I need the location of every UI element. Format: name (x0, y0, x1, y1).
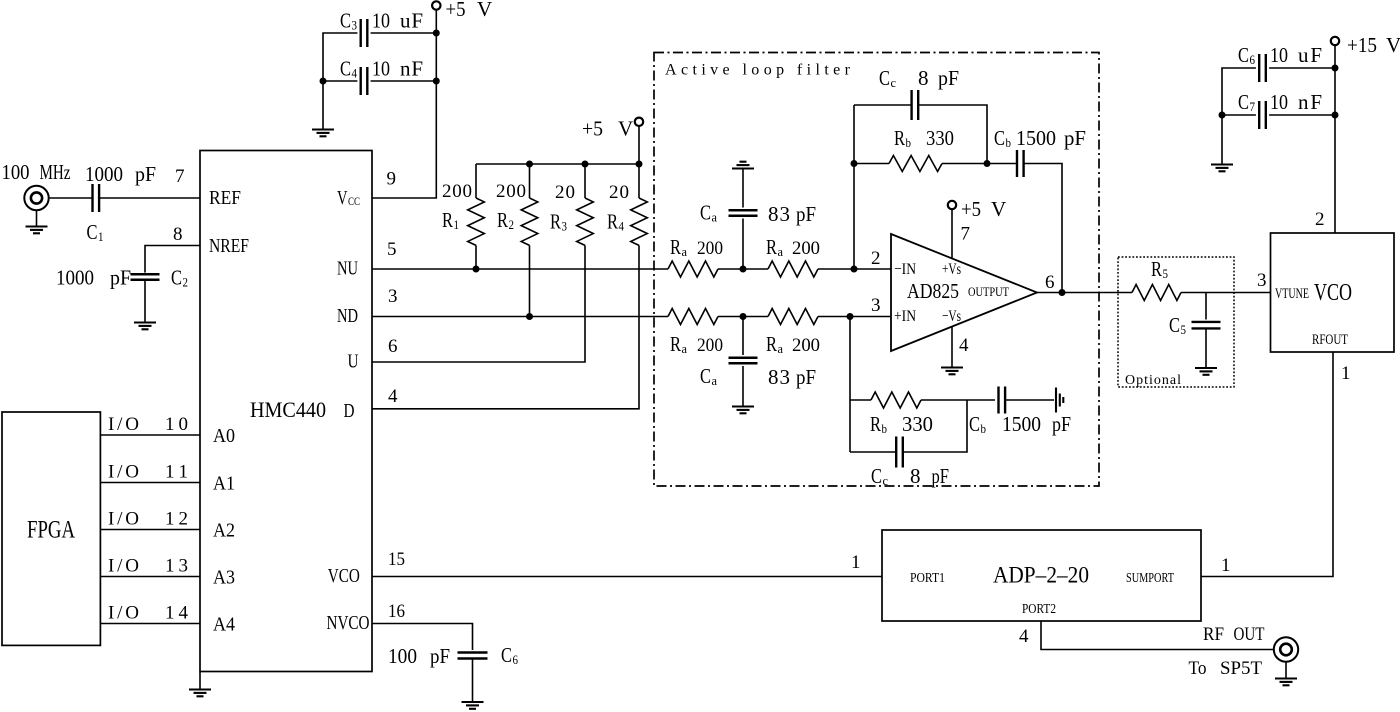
junction rail/R2 (526, 161, 533, 168)
capacitor C6 (VCO supply) (1259, 54, 1266, 82)
svg-text:200: 200 (792, 238, 820, 259)
svg-text:VCO: VCO (1314, 280, 1352, 306)
wire +5V rail down to VCC pin 9 (372, 10, 436, 198)
svg-text:R: R (766, 235, 777, 259)
svg-text:4: 4 (959, 335, 969, 356)
wire RF OUT connector to ground (1285, 662, 1287, 679)
resistor Rb (upper) (889, 156, 942, 172)
svg-text:FPGA: FPGA (27, 517, 75, 544)
svg-text:R: R (442, 208, 453, 232)
svg-text:To: To (1189, 658, 1207, 679)
svg-text:4: 4 (1019, 626, 1029, 647)
svg-text:RFOUT: RFOUT (1312, 332, 1348, 348)
svg-text:nF: nF (1298, 90, 1322, 114)
svg-text:330: 330 (902, 412, 933, 436)
svg-text:PORT1: PORT1 (910, 570, 945, 585)
terminal +5 V (op-amp supply) (948, 201, 956, 209)
wire HMC440 VCO pin 15 to PORT1 (372, 576, 882, 578)
svg-text:C: C (171, 266, 182, 290)
svg-text:3: 3 (871, 295, 881, 316)
ground (C2) (134, 323, 156, 330)
svg-text:8: 8 (173, 224, 183, 245)
svg-text:NU: NU (337, 258, 358, 280)
svg-text:C: C (87, 220, 98, 244)
ground (C6/C7) (1211, 165, 1233, 172)
svg-text:A4: A4 (213, 614, 235, 636)
resistor R3 (577, 198, 594, 245)
svg-text:9: 9 (387, 169, 397, 190)
wire C3 right to +5V rail (371, 32, 437, 34)
svg-text:1: 1 (1341, 363, 1351, 384)
svg-text:12: 12 (165, 509, 188, 530)
svg-text:3: 3 (562, 219, 568, 234)
capacitor C5 branch (1205, 293, 1207, 320)
svg-text:11: 11 (165, 462, 188, 483)
capacitor Cc (upper) (912, 90, 919, 120)
svg-text:C: C (871, 464, 882, 488)
svg-text:AD825: AD825 (907, 279, 959, 303)
svg-text:ND: ND (337, 305, 358, 327)
svg-text:b: b (882, 421, 888, 436)
wire C3 left (323, 33, 357, 130)
svg-text:13: 13 (165, 556, 188, 577)
svg-text:C: C (1169, 313, 1180, 337)
svg-text:−Vs: −Vs (942, 308, 961, 325)
wire Cc upper right (919, 105, 987, 164)
svg-text:CC: CC (348, 194, 360, 208)
svg-text:8: 8 (918, 66, 929, 90)
svg-text:8: 8 (910, 464, 921, 488)
svg-text:NVCO: NVCO (327, 612, 370, 634)
svg-text:pF: pF (430, 644, 450, 668)
svg-text:R: R (870, 412, 881, 436)
svg-text:I/O: I/O (108, 414, 139, 435)
svg-text:14: 14 (165, 603, 189, 624)
wire Rb to Cb (lower) (921, 399, 995, 401)
svg-text:83: 83 (768, 202, 790, 226)
capacitor C2 (131, 274, 160, 280)
svg-text:+Vs: +Vs (942, 261, 961, 278)
svg-text:Active loop filter: Active loop filter (665, 62, 851, 79)
svg-text:1: 1 (98, 229, 104, 244)
wire R2 to ND net (529, 245, 531, 316)
ground (HMC440) (189, 690, 211, 697)
svg-text:nF: nF (400, 57, 423, 81)
svg-text:C: C (1238, 43, 1249, 67)
svg-text:a: a (778, 341, 784, 356)
IC U-HMC440 box (200, 151, 372, 672)
capacitor Cb (lower) (999, 387, 1006, 414)
svg-text:pF: pF (1052, 412, 1071, 436)
svg-text:6: 6 (388, 336, 398, 357)
svg-text:+5: +5 (446, 0, 466, 21)
svg-text:5: 5 (1163, 266, 1169, 281)
svg-text:pF: pF (1064, 126, 1086, 150)
junction +IN/feedback (847, 313, 854, 320)
svg-text:REF: REF (209, 187, 241, 209)
wire NU pin 5 to Ra (372, 268, 668, 270)
resistor Ra (upper right) (768, 261, 818, 277)
wire upper feedback left riser (853, 105, 855, 269)
resistor Rb (lower) (871, 392, 921, 408)
svg-text:pF: pF (796, 365, 816, 389)
svg-text:HMC440: HMC440 (250, 397, 326, 422)
svg-text:7: 7 (1250, 99, 1256, 114)
svg-text:20: 20 (555, 182, 575, 203)
svg-text:c: c (883, 473, 889, 488)
ground (input connector) (26, 227, 48, 234)
svg-text:a: a (682, 244, 688, 259)
svg-text:83: 83 (768, 365, 790, 389)
svg-text:3: 3 (352, 18, 358, 33)
svg-text:pF: pF (932, 464, 950, 488)
svg-text:C: C (501, 643, 512, 667)
svg-text:R: R (894, 126, 905, 150)
svg-text:C: C (340, 9, 351, 33)
wire to Cb upper (987, 163, 1017, 165)
svg-text:V: V (477, 0, 492, 21)
wire FPGA I/O to A2 pin 12 (100, 529, 200, 531)
svg-text:15: 15 (388, 549, 405, 570)
capacitor Ca (lower) branch (742, 317, 744, 356)
svg-text:U: U (348, 351, 359, 373)
wire PORT2 to RF OUT (1041, 621, 1274, 650)
wire rail to R3 (584, 164, 586, 198)
wire FPGA I/O to A3 pin 13 (100, 576, 200, 578)
wire Cb upper to output node (1024, 164, 1062, 293)
wire between lower Ra resistors (718, 316, 768, 318)
svg-text:a: a (712, 373, 718, 388)
svg-text:pF: pF (796, 202, 816, 226)
junction C6/C7 left (1219, 112, 1226, 119)
wire R1 to NU net (475, 245, 477, 269)
junction upper Ca tap (740, 266, 747, 273)
svg-text:b: b (1006, 135, 1012, 150)
svg-text:200: 200 (697, 335, 723, 356)
svg-text:10: 10 (372, 9, 390, 33)
capacitor C1 (93, 184, 100, 212)
svg-text:200: 200 (496, 181, 526, 202)
svg-text:330: 330 (926, 126, 954, 150)
svg-text:2: 2 (871, 248, 881, 269)
svg-text:C: C (994, 126, 1005, 150)
wire C6 to ground (472, 659, 474, 703)
svg-text:I/O: I/O (108, 462, 139, 483)
wire to Rb upper (854, 163, 889, 165)
wire +15V rail to VCO pin 2 (1334, 45, 1336, 233)
wire Cc lower right riser (903, 400, 967, 452)
wire C7 left (1222, 114, 1256, 116)
junction C3/C4 left (320, 78, 327, 85)
wire connector to C1 (49, 197, 93, 199)
svg-text:−IN: −IN (894, 261, 916, 278)
RF OUT connector (1274, 637, 1298, 661)
svg-text:NREF: NREF (209, 235, 249, 257)
junction R1/NU net (473, 266, 480, 273)
capacitor Ca (upper) branch (742, 219, 744, 270)
terminal +5 V (R1-R4 rail) (635, 118, 643, 126)
svg-text:7: 7 (961, 224, 971, 245)
svg-text:OUT: OUT (1234, 624, 1265, 645)
svg-text:16: 16 (388, 601, 405, 622)
wire C7 right (1269, 114, 1335, 116)
svg-text:A0: A0 (213, 425, 235, 447)
svg-text:OUTPUT: OUTPUT (968, 284, 1009, 299)
ground (Cb lower termination, rotated) (1056, 388, 1063, 413)
wire Ca upper to ground (742, 169, 744, 208)
capacitor C7 (1259, 101, 1266, 129)
capacitor C6 (NVCO bypass) (458, 653, 488, 659)
splitter ADP-2-20 box (882, 530, 1201, 621)
svg-text:V: V (337, 187, 348, 209)
svg-text:Optional: Optional (1125, 373, 1181, 388)
svg-text:1500: 1500 (1016, 126, 1056, 150)
svg-text:1: 1 (454, 217, 460, 232)
junction output/Cb (1059, 289, 1066, 296)
junction rail/R4 (636, 161, 643, 168)
capacitor Ca (lower) (729, 358, 758, 364)
wire Ca lower to ground (742, 366, 744, 407)
wire C5 to ground (1205, 329, 1207, 369)
terminal +5 V (top) (432, 1, 440, 9)
wire C6 left (1222, 68, 1256, 165)
junction rail/R3 (582, 161, 589, 168)
svg-text:R: R (607, 210, 618, 234)
wire C2 to ground (144, 280, 146, 323)
wire -Vs pin 4 to ground (951, 327, 953, 368)
capacitor C3 (361, 19, 368, 47)
wire Rb to Cb (upper) (942, 163, 987, 165)
ground (RF OUT connector) (1275, 679, 1297, 686)
svg-text:6: 6 (1045, 272, 1055, 293)
wire +5V rail for R1-R4 (476, 126, 639, 164)
wire FPGA I/O to A4 pin 14 (100, 623, 200, 625)
svg-text:I/O: I/O (108, 556, 139, 577)
resistor R5 (1132, 285, 1181, 301)
svg-text:R: R (766, 332, 777, 356)
resistor R4 (631, 198, 648, 245)
svg-text:2: 2 (509, 217, 515, 232)
svg-text:uF: uF (400, 9, 423, 33)
svg-text:1: 1 (1221, 555, 1231, 576)
junction Rb/Cb/Cc (upper) (984, 160, 991, 167)
svg-text:4: 4 (352, 66, 358, 81)
capacitor Cc (lower) (896, 437, 903, 468)
capacitor Cc (lower) branch (850, 451, 896, 453)
capacitor C4 (361, 67, 368, 95)
wire SUMPORT to VCO RFOUT (1201, 352, 1333, 577)
svg-text:uF: uF (1298, 43, 1322, 67)
svg-text:pF: pF (135, 162, 156, 186)
svg-text:SUMPORT: SUMPORT (1126, 570, 1175, 585)
resistor Ra (lower right) (768, 309, 818, 325)
resistor R2 (521, 198, 538, 245)
wire C4 right to +5V rail (371, 80, 437, 82)
wire FPGA I/O to A0 pin 10 (100, 434, 200, 436)
svg-text:pF: pF (938, 66, 959, 90)
svg-text:VCO: VCO (328, 565, 360, 587)
resistor R1 (468, 198, 485, 245)
wire HMC440 ground stem (199, 672, 201, 690)
svg-text:VTUNE: VTUNE (1275, 286, 1309, 302)
junction -IN/feedback (851, 266, 858, 273)
junction C6/+15V rail (1332, 65, 1339, 72)
svg-text:1500: 1500 (1002, 412, 1041, 436)
wire rail to R4 (638, 164, 640, 198)
svg-text:+IN: +IN (894, 308, 916, 325)
wire NVCO pin 16 to C6 cap (372, 624, 473, 651)
svg-text:R: R (497, 208, 508, 232)
wire Ra to op-amp -IN pin 2 (818, 268, 891, 270)
svg-text:2: 2 (1315, 209, 1325, 230)
svg-text:100: 100 (388, 644, 417, 668)
svg-text:200: 200 (697, 238, 723, 259)
svg-text:V: V (618, 117, 633, 141)
svg-text:A2: A2 (213, 520, 235, 542)
capacitor Cc (upper) branch (854, 104, 911, 106)
svg-text:C: C (700, 364, 711, 388)
wire C6 right (1269, 67, 1335, 69)
op-amp U1 AD825 triangle (891, 234, 1037, 351)
wire R5 to VCO VTUNE pin 3 (1181, 292, 1271, 294)
ground (op-amp -Vs) (941, 368, 963, 375)
svg-text:1000: 1000 (56, 266, 94, 290)
svg-text:I/O: I/O (108, 509, 139, 530)
wire connector to ground (36, 210, 38, 226)
svg-text:R: R (670, 332, 681, 356)
wire rail to R1 (475, 164, 477, 198)
svg-text:a: a (778, 244, 784, 259)
svg-text:6: 6 (1250, 52, 1256, 67)
wire Ra to op-amp +IN pin 3 (818, 316, 891, 318)
capacitor C5 (1192, 322, 1221, 329)
junction lower Ca tap (740, 313, 747, 320)
ground (C6 NVCO) (462, 702, 484, 709)
svg-text:200: 200 (792, 335, 820, 356)
resistor Ra (lower left) (668, 309, 718, 325)
svg-text:R: R (1151, 257, 1162, 281)
Optional dotted box (1118, 257, 1234, 387)
svg-text:R: R (550, 210, 561, 234)
svg-text:C: C (700, 201, 711, 225)
junction Cc/Rb left (upper) (851, 160, 858, 167)
svg-text:200: 200 (442, 181, 472, 202)
svg-text:100: 100 (2, 160, 30, 184)
svg-text:10: 10 (1270, 43, 1288, 67)
ground (C3/C4) (312, 130, 334, 137)
svg-text:10: 10 (1270, 90, 1288, 114)
wire R4 to D pin 4 (372, 245, 639, 408)
svg-text:5: 5 (387, 239, 397, 260)
capacitor Cb (upper) (1017, 150, 1024, 177)
capacitor Ca (upper) (729, 210, 758, 216)
svg-text:A1: A1 (213, 473, 235, 495)
svg-text:C: C (879, 66, 890, 90)
svg-text:10: 10 (165, 414, 188, 435)
ground (C5) (1195, 368, 1217, 375)
ground (Ca upper, inverted) (732, 162, 754, 169)
wire to Rb lower (850, 399, 871, 401)
svg-text:I/O: I/O (108, 603, 139, 624)
svg-text:3: 3 (1257, 270, 1267, 291)
svg-text:1000: 1000 (85, 162, 123, 186)
svg-text:5: 5 (1181, 322, 1187, 337)
resistor Ra (upper left) (668, 261, 718, 277)
ground (Ca lower) (732, 407, 754, 414)
svg-text:4: 4 (388, 386, 398, 407)
svg-text:10: 10 (372, 57, 390, 81)
svg-text:V: V (1386, 33, 1400, 57)
svg-text:c: c (891, 75, 897, 90)
terminal +15 V (1331, 37, 1339, 45)
svg-text:3: 3 (388, 286, 398, 307)
wire op-amp output to R5 (1037, 292, 1132, 294)
svg-text:a: a (712, 210, 718, 225)
svg-text:D: D (344, 400, 355, 422)
wire ND pin 3 to Ra (372, 316, 668, 318)
svg-text:C: C (1238, 90, 1249, 114)
Active loop filter dashed box (654, 53, 1099, 487)
VCO box (1271, 233, 1395, 352)
svg-text:R: R (670, 235, 681, 259)
svg-text:a: a (682, 341, 688, 356)
svg-text:7: 7 (175, 166, 185, 187)
wire R3 to U pin 6 (372, 245, 585, 362)
junction C7/+15V rail (1332, 112, 1339, 119)
wire C4 left (323, 80, 357, 82)
wire Cb lower to termination (1005, 399, 1054, 401)
svg-text:C: C (340, 57, 351, 81)
svg-text:+5: +5 (961, 197, 981, 221)
wire lower feedback left riser (849, 317, 851, 453)
svg-text:RF: RF (1203, 624, 1224, 645)
FPGA box (2, 412, 100, 645)
svg-text:ADP–2–20: ADP–2–20 (993, 563, 1089, 588)
wire +Vs pin 7 (951, 209, 953, 258)
svg-text:2: 2 (183, 275, 189, 290)
svg-text:+5: +5 (582, 117, 603, 141)
svg-text:b: b (981, 421, 987, 436)
svg-text:PORT2: PORT2 (1022, 601, 1056, 616)
wire C1 to REF pin 7 (99, 197, 200, 199)
junction R2/ND net (526, 313, 533, 320)
wire rail to R2 (529, 164, 531, 198)
junction C3/+5V rail (433, 30, 440, 37)
svg-text:6: 6 (513, 652, 519, 667)
svg-text:20: 20 (609, 182, 629, 203)
svg-text:MHz: MHz (40, 160, 71, 184)
svg-text:pF: pF (110, 266, 131, 290)
svg-text:A3: A3 (213, 567, 235, 589)
svg-text:C: C (969, 412, 980, 436)
svg-text:SP5T: SP5T (1220, 658, 1262, 679)
wire NREF pin 8 (145, 246, 200, 273)
100 MHz reference input connector (24, 186, 48, 210)
svg-text:V: V (991, 197, 1006, 221)
wire FPGA I/O to A1 pin 11 (100, 482, 200, 484)
wire between upper Ra resistors (718, 268, 768, 270)
junction C4/+5V rail (433, 78, 440, 85)
svg-text:+15: +15 (1347, 33, 1377, 57)
svg-text:b: b (906, 135, 912, 150)
svg-text:4: 4 (619, 219, 625, 234)
svg-text:1: 1 (851, 552, 861, 573)
